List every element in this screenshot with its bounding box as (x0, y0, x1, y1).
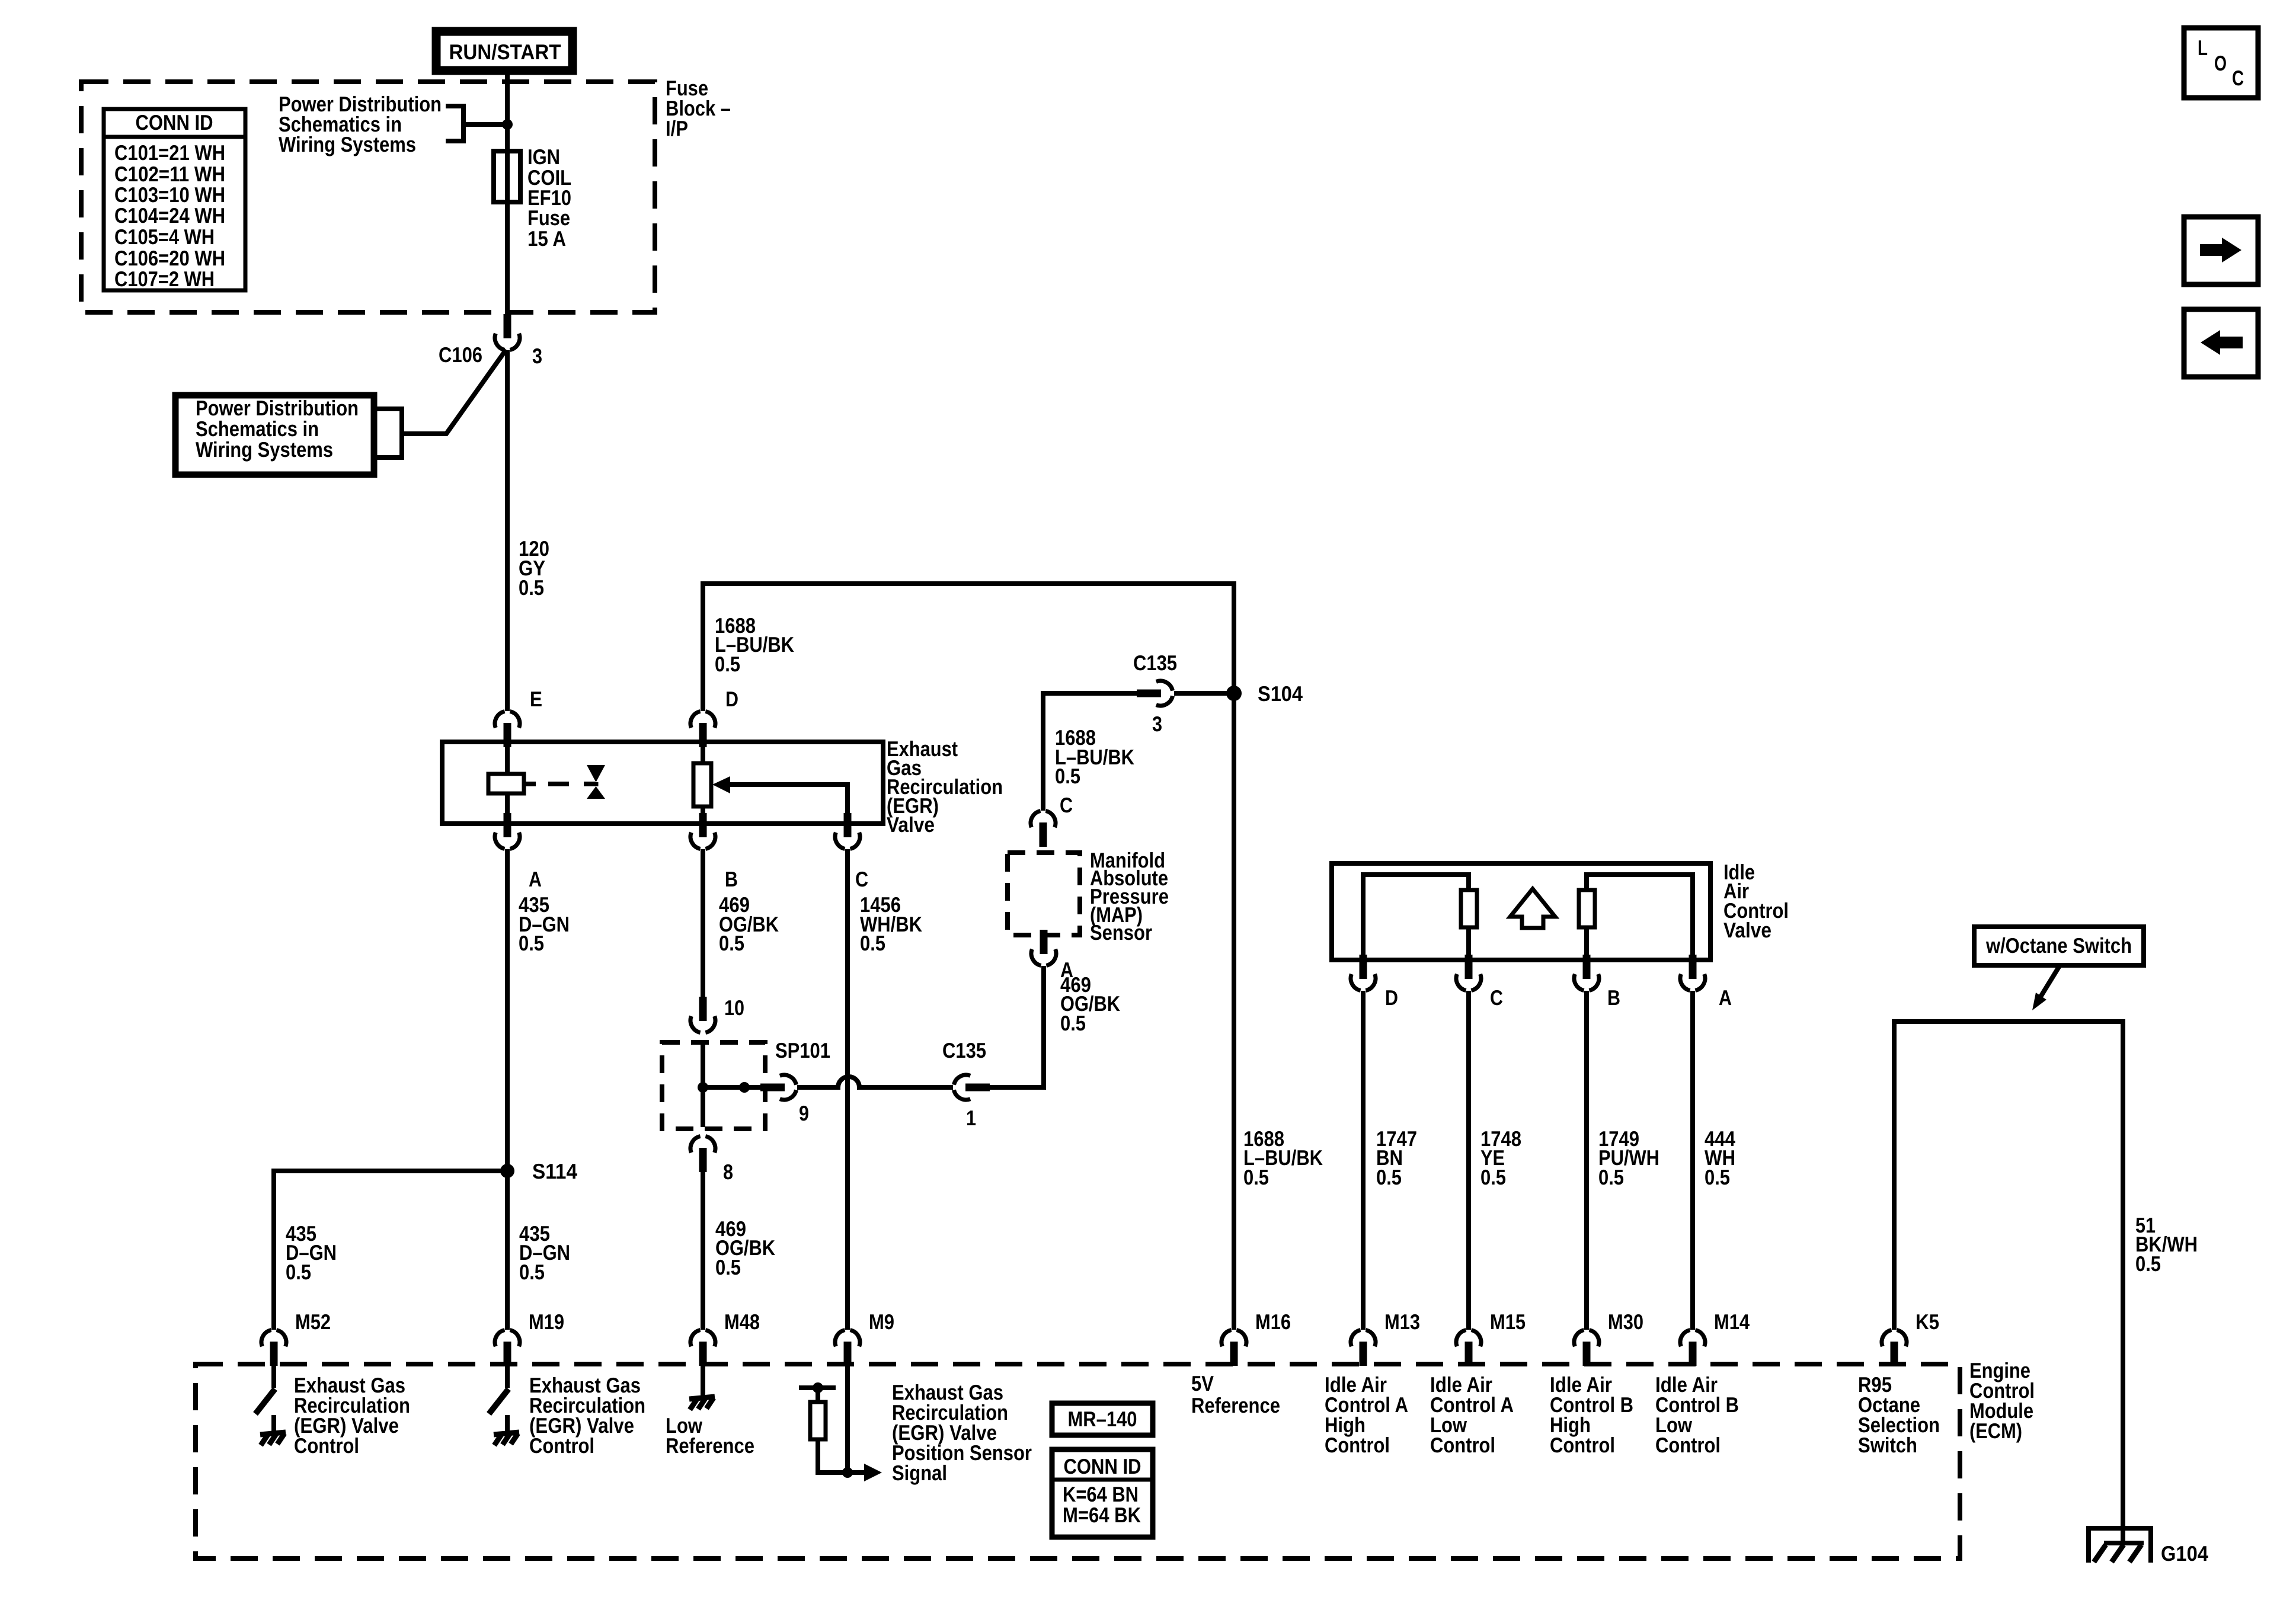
svg-text:0.5: 0.5 (286, 1260, 311, 1284)
svg-text:M9: M9 (869, 1310, 894, 1334)
svg-text:Control: Control (529, 1433, 594, 1458)
junction dot (502, 119, 513, 130)
wire from RUN/START to fuse (505, 75, 510, 151)
svg-text:0.5: 0.5 (1598, 1165, 1624, 1189)
svg-text:C135: C135 (942, 1038, 986, 1062)
svg-text:SP101: SP101 (775, 1038, 830, 1062)
connector C (835, 813, 860, 849)
previous page arrow box (2184, 309, 2258, 377)
svg-text:RUN/START: RUN/START (449, 40, 561, 64)
wire 1688 trunk to M16 (1232, 681, 1236, 1330)
connector M16 (1221, 1330, 1246, 1366)
connector M52 (261, 1330, 286, 1366)
svg-text:MR–140: MR–140 (1068, 1407, 1137, 1431)
svg-text:0.5: 0.5 (519, 931, 544, 955)
wire 1688 L-BU/BK top run (703, 584, 1234, 711)
svg-text:0.5: 0.5 (1376, 1165, 1402, 1189)
svg-text:0.5: 0.5 (1055, 764, 1080, 788)
wire 469 OG/BK (B to splice pack) (701, 849, 705, 1008)
wire 1748 YE (1466, 991, 1471, 1330)
connector M14 (1680, 1330, 1705, 1366)
svg-text:Wiring Systems: Wiring Systems (279, 132, 416, 156)
svg-text:S114: S114 (532, 1159, 577, 1183)
wire 435 D-GN (A to S114) (505, 849, 510, 1171)
svg-text:S104: S104 (1258, 681, 1303, 706)
svg-text:Signal: Signal (892, 1461, 947, 1485)
connector M30 (1574, 1330, 1599, 1366)
connector M15 (1456, 1330, 1481, 1366)
svg-text:C104=24 WH: C104=24 WH (114, 203, 225, 228)
Engine Control Module dashed box (196, 1364, 1960, 1558)
wire fuse to C106 (505, 202, 510, 321)
svg-text:0.5: 0.5 (1243, 1165, 1269, 1189)
ground G104 (2089, 1528, 2151, 1563)
svg-text:CONN ID: CONN ID (136, 110, 213, 135)
svg-text:B: B (1607, 985, 1620, 1010)
svg-text:C107=2 WH: C107=2 WH (114, 267, 215, 291)
connector SP101 pin 9 (760, 1075, 797, 1100)
wiper arrow (712, 776, 730, 793)
svg-text:C105=4 WH: C105=4 WH (114, 225, 215, 249)
octane switch loop wire (1894, 1022, 2123, 1541)
wire 1749 PU/WH (1584, 991, 1589, 1330)
svg-text:M16: M16 (1255, 1310, 1291, 1334)
svg-text:O: O (2214, 51, 2227, 75)
Power Distribution reference box (175, 395, 374, 475)
MAP sensor dashed box (1008, 853, 1080, 935)
svg-text:CONN ID: CONN ID (1064, 1454, 1141, 1478)
wire S114 to M19 (505, 1171, 510, 1330)
Idle Air Control Valve box (1332, 863, 1710, 960)
wire splice to C135 with hop over 1456 wire (797, 1077, 953, 1087)
EGR solenoid coil (505, 742, 510, 824)
svg-text:Valve: Valve (1723, 918, 1771, 942)
svg-text:M19: M19 (529, 1310, 564, 1334)
wire 1747 BN (1361, 991, 1366, 1330)
svg-text:M=64 BK: M=64 BK (1063, 1503, 1141, 1527)
svg-text:M14: M14 (1714, 1310, 1750, 1334)
svg-text:Control: Control (1550, 1433, 1615, 1457)
wire 469 OG/BK (8 to M48) (701, 1161, 705, 1330)
svg-text:M30: M30 (1608, 1310, 1643, 1334)
wire S104 to C135 (1174, 691, 1234, 696)
connector 10 (690, 997, 715, 1033)
wire 120 GY 0.5 (505, 350, 510, 711)
callout arrow (2039, 966, 2060, 1000)
connector D (IAC) (1351, 955, 1376, 991)
EGR valve box (442, 742, 883, 824)
svg-text:M15: M15 (1490, 1310, 1526, 1334)
MR-140 box (1052, 1403, 1153, 1435)
svg-text:C: C (855, 867, 868, 891)
svg-text:E: E (530, 687, 542, 711)
wire 444 WH (1690, 991, 1695, 1330)
wire S114 branch to M52 (274, 1171, 507, 1330)
EGR valve control driver M19 (505, 1365, 510, 1388)
svg-text:1: 1 (966, 1106, 976, 1130)
svg-text:I/P: I/P (666, 116, 688, 140)
fuse IGN COIL EF10 15A (505, 151, 510, 202)
splice pack SP101 dashed box (662, 1042, 765, 1129)
svg-text:D: D (1385, 985, 1398, 1010)
next page arrow box (2184, 217, 2258, 284)
svg-text:G104: G104 (2161, 1541, 2208, 1566)
svg-text:3: 3 (1152, 712, 1162, 736)
wire 469 OG/BK from MAP (979, 966, 1044, 1087)
CONN ID table (104, 109, 245, 290)
connector C (MAP) (1031, 811, 1056, 847)
LOC icon box (2184, 28, 2258, 98)
svg-text:8: 8 (723, 1160, 733, 1184)
svg-text:D: D (725, 687, 738, 711)
svg-text:3: 3 (532, 344, 542, 368)
svg-text:0.5: 0.5 (519, 575, 544, 600)
splice S104 (1226, 686, 1242, 701)
connector M19 (495, 1330, 520, 1366)
svg-text:Control: Control (294, 1433, 359, 1458)
svg-text:K5: K5 (1916, 1310, 1939, 1334)
svg-text:A: A (529, 867, 542, 891)
svg-text:5V: 5V (1191, 1371, 1214, 1395)
wire 1456 WH/BK (C to M9) (845, 849, 850, 1330)
IAC coil A (left loop) (1363, 875, 1469, 960)
connector C106 (495, 314, 520, 350)
bracket (374, 409, 402, 457)
connector M13 (1351, 1330, 1376, 1366)
svg-text:10: 10 (724, 996, 744, 1020)
bracket to power distribution note (446, 106, 505, 141)
leader line to power distribution box (402, 350, 506, 434)
CONN ID box (1052, 1449, 1153, 1537)
ignition switch RUN/START box (436, 31, 573, 71)
splice bus inside SP101 (701, 1044, 705, 1127)
svg-text:Sensor: Sensor (1090, 920, 1152, 945)
svg-text:Control: Control (1430, 1433, 1495, 1457)
IAC pintle arrow symbol (1510, 889, 1555, 928)
svg-text:0.5: 0.5 (715, 1255, 741, 1279)
connector 8 (690, 1137, 715, 1173)
svg-text:C135: C135 (1133, 651, 1177, 675)
svg-text:0.5: 0.5 (519, 1260, 545, 1284)
EGR valve control driver M52 (271, 1365, 276, 1388)
connector M48 (690, 1330, 715, 1366)
svg-text:0.5: 0.5 (2135, 1251, 2161, 1276)
svg-text:M52: M52 (295, 1310, 331, 1334)
connector M9 (835, 1330, 860, 1366)
svg-text:C101=21 WH: C101=21 WH (114, 140, 225, 165)
connector E (495, 712, 520, 748)
w/Octane Switch callout box (1974, 927, 2144, 965)
connector A (MAP) (1031, 930, 1056, 966)
svg-text:C: C (1060, 793, 1073, 817)
wire C135 to MAP sensor (1043, 693, 1141, 811)
svg-text:0.5: 0.5 (719, 931, 744, 955)
svg-text:Reference: Reference (1191, 1393, 1280, 1417)
fuse block I/P dashed box (81, 82, 655, 312)
EGR position sensor signal input M9 (845, 1365, 850, 1473)
connector B (690, 813, 715, 849)
connector C135 pin 3 (1137, 681, 1173, 706)
svg-text:0.5: 0.5 (1060, 1011, 1086, 1035)
svg-text:Control: Control (1325, 1433, 1390, 1457)
connector C135 pin 1 (954, 1075, 990, 1100)
splice S114 (500, 1164, 514, 1178)
svg-text:0.5: 0.5 (860, 931, 885, 955)
svg-text:Control: Control (1655, 1433, 1721, 1457)
svg-text:Wiring Systems: Wiring Systems (196, 437, 333, 462)
svg-text:(ECM): (ECM) (1969, 1419, 2022, 1443)
connector A (IAC) (1680, 955, 1705, 991)
svg-text:M13: M13 (1384, 1310, 1420, 1334)
svg-text:C: C (1490, 985, 1503, 1010)
svg-text:0.5: 0.5 (1480, 1165, 1506, 1189)
IAC coil B (right loop) (1587, 875, 1693, 960)
connector D (690, 712, 715, 748)
svg-text:C106: C106 (439, 343, 482, 367)
low reference M48 (701, 1365, 705, 1397)
svg-text:L: L (2198, 36, 2208, 60)
svg-text:Switch: Switch (1858, 1433, 1917, 1457)
EGR butterfly valve symbol (587, 765, 605, 782)
connector C (IAC) (1456, 955, 1481, 991)
connector B (IAC) (1574, 955, 1599, 991)
connector A (495, 813, 520, 849)
svg-text:9: 9 (799, 1101, 809, 1125)
svg-text:0.5: 0.5 (1705, 1165, 1730, 1189)
svg-text:0.5: 0.5 (715, 652, 740, 676)
dashed mechanical link (548, 782, 569, 786)
connector K5 (1882, 1330, 1907, 1366)
svg-text:15 A: 15 A (527, 226, 566, 251)
svg-text:B: B (725, 867, 738, 891)
svg-text:Valve: Valve (887, 812, 935, 837)
svg-text:Reference: Reference (666, 1433, 754, 1458)
EGR position sensor potentiometer (701, 742, 705, 824)
svg-text:M48: M48 (724, 1310, 760, 1334)
svg-text:A: A (1719, 985, 1732, 1010)
svg-text:C: C (2232, 66, 2244, 90)
svg-text:w/Octane Switch: w/Octane Switch (1985, 933, 2132, 958)
